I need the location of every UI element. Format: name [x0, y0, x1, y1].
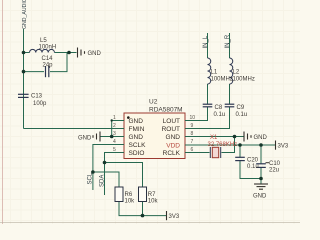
- svg-text:10k: 10k: [148, 199, 159, 205]
- svg-text:C10: C10: [269, 161, 281, 167]
- svg-text:FMIN: FMIN: [129, 126, 145, 133]
- svg-text:VDD: VDD: [166, 143, 180, 150]
- svg-text:L2: L2: [233, 70, 240, 76]
- svg-text:24p: 24p: [43, 63, 54, 69]
- svg-text:GND_AUDIO: GND_AUDIO: [22, 0, 28, 29]
- svg-text:100nH: 100nH: [39, 45, 57, 51]
- svg-text:100MHz: 100MHz: [233, 77, 255, 83]
- svg-text:100MHz: 100MHz: [211, 77, 233, 83]
- svg-text:SDIO: SDIO: [129, 150, 145, 157]
- svg-text:100p: 100p: [33, 101, 47, 107]
- svg-text:R7: R7: [148, 192, 156, 198]
- svg-text:10: 10: [190, 115, 196, 121]
- svg-text:GND: GND: [78, 136, 92, 142]
- svg-text:7: 7: [191, 139, 194, 145]
- svg-text:0.1u: 0.1u: [247, 164, 259, 170]
- svg-text:22u: 22u: [269, 168, 279, 174]
- svg-text:RDA5807M: RDA5807M: [149, 107, 183, 114]
- svg-text:GND: GND: [88, 51, 102, 57]
- svg-text:C13: C13: [31, 94, 43, 100]
- svg-text:4: 4: [113, 139, 116, 145]
- svg-text:GND: GND: [254, 135, 268, 141]
- svg-text:0.1u: 0.1u: [236, 112, 248, 118]
- svg-text:8: 8: [191, 131, 194, 137]
- svg-text:9: 9: [191, 123, 194, 129]
- svg-text:5: 5: [113, 147, 116, 153]
- svg-text:SCLK: SCLK: [129, 142, 147, 149]
- svg-text:C9: C9: [237, 105, 245, 111]
- svg-text:6: 6: [191, 147, 194, 153]
- svg-text:10k: 10k: [125, 199, 136, 205]
- svg-text:C14: C14: [42, 56, 54, 62]
- svg-text:3V3: 3V3: [169, 214, 180, 220]
- svg-text:X1: X1: [210, 135, 218, 141]
- svg-text:GND: GND: [129, 118, 144, 125]
- svg-text:RCLK: RCLK: [163, 150, 181, 157]
- svg-text:GND: GND: [253, 194, 267, 200]
- svg-text:SCL: SCL: [88, 172, 94, 184]
- svg-text:GND: GND: [166, 134, 181, 141]
- svg-text:L5: L5: [40, 38, 47, 44]
- svg-text:3V3: 3V3: [278, 144, 289, 150]
- svg-text:ROUT: ROUT: [162, 126, 180, 133]
- svg-text:32.768KHz: 32.768KHz: [208, 142, 238, 148]
- svg-text:0.1u: 0.1u: [214, 112, 226, 118]
- svg-text:IN_L: IN_L: [203, 35, 209, 48]
- svg-text:2: 2: [113, 123, 116, 129]
- svg-text:SDA: SDA: [100, 175, 106, 187]
- svg-text:IN_R: IN_R: [225, 34, 231, 48]
- svg-text:1: 1: [113, 115, 116, 121]
- svg-text:GND: GND: [129, 134, 144, 141]
- svg-text:U2: U2: [149, 99, 158, 106]
- svg-text:R6: R6: [125, 192, 133, 198]
- svg-text:LOUT: LOUT: [163, 118, 180, 125]
- svg-text:C20: C20: [247, 158, 259, 164]
- svg-text:L1: L1: [211, 70, 218, 76]
- svg-text:C8: C8: [215, 105, 223, 111]
